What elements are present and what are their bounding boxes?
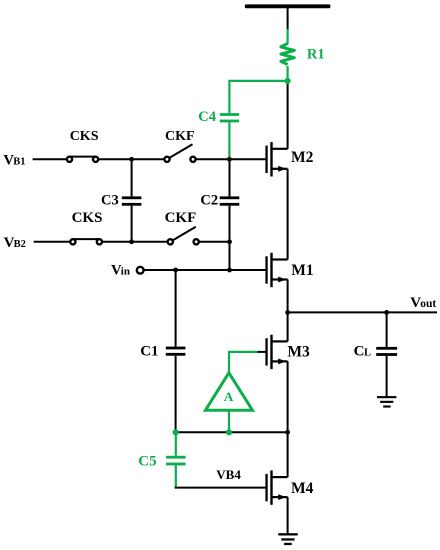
svg-text:C5: C5: [138, 454, 156, 470]
svg-text:M4: M4: [291, 480, 314, 497]
svg-text:C1: C1: [140, 344, 158, 360]
svg-text:Vout: Vout: [410, 295, 436, 311]
svg-text:CKF: CKF: [165, 210, 197, 226]
svg-text:C2: C2: [200, 193, 218, 209]
svg-text:R1: R1: [307, 47, 325, 63]
svg-text:C4: C4: [198, 109, 216, 125]
svg-text:A: A: [224, 389, 234, 404]
svg-text:M2: M2: [291, 149, 314, 166]
svg-text:M3: M3: [287, 344, 310, 361]
svg-text:CKS: CKS: [72, 210, 103, 226]
svg-text:C3: C3: [101, 193, 119, 209]
svg-text:M1: M1: [291, 262, 313, 279]
svg-text:CKS: CKS: [70, 129, 99, 144]
svg-text:Vin: Vin: [111, 262, 130, 278]
svg-text:CKF: CKF: [165, 129, 195, 144]
svg-text:VB4: VB4: [216, 467, 241, 482]
